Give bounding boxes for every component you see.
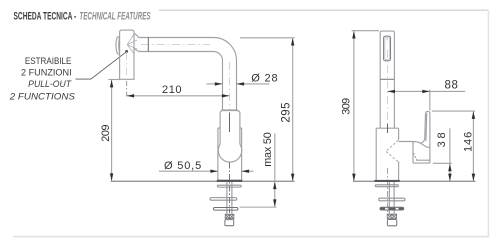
base plate bar right [374, 180, 399, 182]
mounting hardware left [210, 182, 241, 226]
washer 3 [380, 207, 404, 210]
column outer [380, 31, 394, 128]
vertical tube right [236, 61, 238, 111]
146 up arrow [472, 111, 475, 119]
head button dash [386, 38, 388, 40]
295 down arrow [291, 174, 294, 182]
bottom fitting [225, 220, 234, 226]
body left [375, 128, 377, 180]
washer 3 hatch [381, 208, 404, 210]
dim 209 ext [108, 79, 120, 81]
dim 295 line [292, 38, 294, 181]
countertop line right [353, 180, 476, 182]
head joint line [380, 78, 394, 80]
dim 309 line [353, 31, 355, 181]
d50 right arrow [242, 170, 250, 173]
bend outer [214, 38, 237, 61]
38 down arrow [448, 174, 451, 182]
209 down arrow [110, 173, 113, 181]
socket diagonal [413, 153, 416, 160]
sleeve capsule [220, 111, 240, 145]
dark center segment body [229, 113, 231, 133]
dim d50 line left [159, 170, 218, 172]
svg-text:38: 38 [436, 132, 448, 147]
mounting hardware right [375, 182, 405, 226]
leader line to spray head [76, 52, 127, 79]
spout horizontal tube top [138, 37, 213, 39]
d28 right arrow [237, 82, 245, 85]
washer 2 [210, 198, 237, 201]
88 left arrow [388, 90, 396, 93]
dim 309 ext [352, 30, 379, 32]
nuts [387, 214, 396, 218]
threaded rod [389, 182, 394, 214]
head inner line 2 [385, 37, 389, 59]
spray head clip crescent [116, 37, 120, 54]
arrowheads left [110, 38, 295, 207]
countertop line left [111, 180, 295, 182]
38 up arrow [448, 164, 451, 172]
dim d28 line right [237, 83, 270, 85]
svg-text:209: 209 [100, 124, 112, 141]
dimension texts left [100, 72, 293, 172]
body outer left [217, 128, 219, 180]
tube horizontal centerline [141, 44, 210, 46]
vertical tube left [222, 61, 224, 111]
dim 38 line [449, 128, 451, 181]
svg-text:max 50: max 50 [262, 132, 274, 167]
d28 left arrow [215, 82, 223, 85]
spout horizontal tube bottom [138, 51, 213, 53]
88 right arrow [422, 90, 430, 93]
dim 88 ext blade [429, 90, 431, 111]
body right upper [398, 128, 400, 140]
210 right arrow [222, 94, 230, 97]
head flare bottom [134, 49, 138, 51]
fan rays [127, 34, 137, 53]
dim 146 ext [432, 110, 476, 112]
blade inner line [425, 113, 428, 141]
body shoulder [376, 127, 398, 129]
body chevron [386, 140, 399, 162]
max50 bottom ref line [240, 206, 277, 208]
146 down arrow [472, 174, 475, 182]
tube joint line [147, 38, 149, 52]
max50 up arrow [273, 182, 276, 190]
svg-text:88: 88 [445, 80, 458, 92]
socket bottom [416, 159, 430, 161]
head inner rounded rect [384, 36, 391, 61]
dark center segment base [229, 163, 231, 214]
svg-text:309: 309 [340, 98, 352, 115]
svg-text:2 FUNZIONI: 2 FUNZIONI [21, 67, 72, 77]
210 left arrow [127, 94, 135, 97]
svg-text:295: 295 [281, 102, 293, 122]
dim 209 line [111, 80, 113, 181]
dim d50 line right [242, 170, 254, 172]
handle socket top [399, 142, 421, 144]
svg-text:210: 210 [162, 84, 182, 96]
dim 210 ext dashdot [126, 81, 128, 99]
209 up arrow [110, 80, 113, 88]
washer 2 [379, 198, 405, 201]
svg-text:TECHNICAL FEATURES: TECHNICAL FEATURES [79, 10, 151, 22]
svg-text:PULL-OUT: PULL-OUT [28, 79, 72, 89]
frame: bottom border [13, 236, 489, 238]
base plate bar [217, 180, 243, 182]
socket lower flange [413, 162, 430, 164]
centerline right faucet [387, 50, 389, 122]
body outer right [241, 128, 243, 180]
leader dot [125, 50, 128, 53]
svg-text:SCHEDA TECNICA -: SCHEDA TECNICA - [14, 10, 77, 22]
svg-text:Ø 50,5: Ø 50,5 [164, 160, 201, 172]
bottom fitting [387, 220, 396, 226]
svg-text:ESTRAIBILE: ESTRAIBILE [25, 55, 72, 66]
threaded rod [227, 182, 232, 214]
frame: right border [487, 10, 489, 236]
dim 210 line [127, 95, 230, 97]
spray head body [120, 30, 134, 79]
dim 295 ext [240, 37, 295, 39]
arrowheads right [352, 31, 475, 181]
washer 1 [375, 185, 398, 187]
washer 3 [213, 208, 238, 211]
dim 146 line [472, 112, 474, 181]
tube vertical centerline [228, 62, 230, 110]
dim max50 line [274, 134, 276, 207]
svg-text:146: 146 [463, 132, 475, 152]
label ESTRAIBILE block [9, 55, 76, 102]
washer 1 [217, 185, 241, 187]
svg-text:Ø 28: Ø 28 [251, 72, 277, 84]
295 up arrow [291, 38, 294, 46]
dark center segment right [387, 124, 389, 134]
max50 down arrow [273, 199, 276, 207]
dim d28 line left [207, 83, 223, 85]
body right lower [398, 162, 400, 181]
handle blade right edge [426, 111, 430, 163]
dim 88 line [388, 90, 466, 92]
nuts [225, 214, 234, 218]
shoulder [222, 109, 238, 111]
centerlines left faucet [127, 45, 230, 111]
socket vertical [412, 142, 414, 164]
body step [218, 127, 242, 129]
bend inner [214, 52, 223, 61]
dim 38 ext [433, 162, 452, 164]
309 up arrow [352, 31, 355, 39]
d50 left arrow [210, 170, 218, 173]
head flare top [134, 33, 138, 37]
head centerline [126, 52, 128, 79]
309 down arrow [352, 174, 355, 182]
ball lower arc [218, 144, 241, 162]
frame: top rule [159, 9, 488, 11]
handle blade left edge [421, 113, 430, 147]
svg-text:2 FUNCTIONS: 2 FUNCTIONS [9, 91, 76, 102]
dimension texts right [340, 80, 474, 153]
